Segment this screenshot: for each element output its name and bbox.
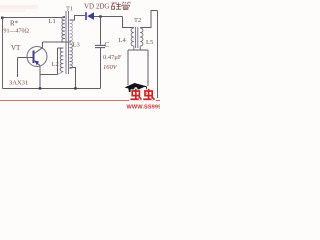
wire L2 bottom hook	[58, 71, 63, 74]
transistor VT base bar	[33, 51, 35, 64]
transistor VT emitter stroke	[34, 60, 41, 66]
transformer T2 winding L4	[131, 28, 134, 46]
transformer T1 winding L2	[60, 48, 63, 71]
diode VD cathode bar	[85, 12, 87, 20]
transformer T1 winding L3 upper	[70, 20, 73, 44]
wire L2 top lead	[58, 47, 64, 49]
logo graduation cap tassel	[135, 84, 148, 93]
wire T2 bottom bar	[128, 49, 148, 51]
svg-text:L4: L4	[119, 37, 127, 44]
wire T2 winding bottoms to bar	[134, 46, 140, 50]
wire node to T2 left lead	[123, 17, 134, 28]
wire T2 right output down	[147, 50, 149, 86]
wire capacitor down to bottom rail	[100, 48, 102, 89]
logo hanzi chong 2	[143, 89, 154, 100]
svg-text:L5: L5	[146, 39, 153, 46]
capacitor C top plate	[95, 44, 105, 46]
transistor VT circle	[27, 47, 47, 67]
svg-text:R*: R*	[10, 20, 19, 28]
svg-text:160V: 160V	[103, 64, 118, 71]
svg-text:3AX31: 3AX31	[9, 80, 28, 87]
svg-text:WWW.SS999.COM: WWW.SS999.COM	[127, 105, 161, 111]
wire L2 top lead down	[57, 48, 59, 75]
transformer T1 winding L1	[62, 17, 65, 43]
transformer T1 winding L3 lower	[70, 44, 73, 68]
diode VD triangle	[87, 12, 94, 20]
wire right rail	[157, 11, 159, 99]
transformer T2 core	[136, 27, 138, 48]
logo graduation cap head	[128, 87, 140, 92]
svg-text:L3: L3	[73, 42, 80, 49]
wire collector to L3 tap	[43, 41, 72, 43]
wire T2 right lead	[140, 11, 157, 28]
wire base down	[17, 58, 19, 78]
logo hanzi chong 1	[130, 89, 141, 100]
wire left rail	[2, 18, 4, 89]
wire L3 top lead	[70, 16, 86, 21]
transistor VT emitter arrow	[35, 61, 40, 66]
transformer T1 core	[66, 11, 69, 74]
transistor VT collector stroke	[34, 48, 43, 54]
logo graduation cap board	[125, 83, 147, 91]
wire emitter down	[39, 66, 41, 89]
svg-text:L1: L1	[49, 18, 56, 25]
wire bottom rail	[3, 88, 101, 90]
scan tint top-left	[0, 5, 38, 9]
svg-text:VD 2DG: VD 2DG	[84, 3, 109, 11]
svg-text:T2: T2	[134, 17, 141, 24]
svg-text:0.47μF: 0.47μF	[103, 54, 122, 61]
wire emitter to L2	[40, 74, 58, 76]
logo graduation cap tassel tuft	[146, 92, 149, 95]
svg-text:T1: T1	[66, 6, 73, 13]
svg-text:C: C	[105, 41, 110, 49]
logo hanzi chong 2 white halo	[143, 89, 154, 100]
node top-left corner	[1, 17, 4, 20]
red page border bottom	[0, 100, 160, 102]
logo hanzi chong 1 white halo	[130, 89, 141, 100]
svg-text:91—470Ω: 91—470Ω	[4, 29, 30, 35]
wire top rail	[2, 17, 65, 19]
capacitor C bottom plate	[95, 47, 105, 49]
svg-text:VT: VT	[11, 44, 21, 52]
wire collector up	[42, 42, 44, 48]
junction emitter-bottom	[39, 87, 41, 89]
wire T2 left output down	[127, 50, 129, 85]
wire diode to junction	[94, 16, 123, 18]
background	[0, 0, 160, 110]
wire L3 winding bottom lead	[70, 68, 76, 89]
wire base lead	[18, 57, 33, 59]
junction diode node	[99, 15, 101, 17]
wire node down to capacitor	[100, 17, 102, 45]
svg-text:L2: L2	[52, 61, 59, 68]
junction L2-bottom rail	[74, 87, 76, 89]
label hanzi silicon tube	[112, 2, 131, 10]
transformer T2 winding L5	[140, 28, 143, 46]
